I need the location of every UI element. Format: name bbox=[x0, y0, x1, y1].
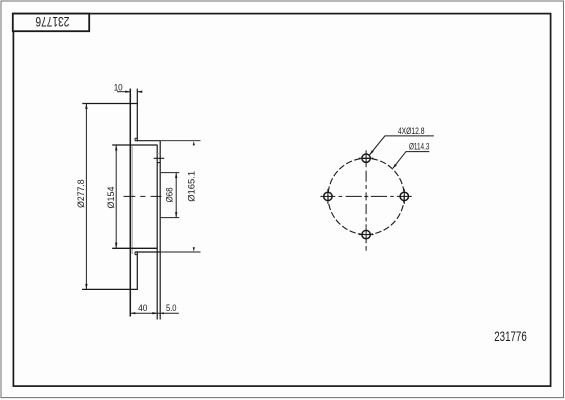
svg-text:Ø165.1: Ø165.1 bbox=[187, 171, 198, 202]
svg-text:Ø154: Ø154 bbox=[106, 187, 117, 209]
svg-text:5.0: 5.0 bbox=[166, 303, 177, 313]
svg-text:Ø277.8: Ø277.8 bbox=[76, 179, 87, 208]
svg-text:4XØ12.8: 4XØ12.8 bbox=[398, 126, 425, 136]
svg-text:231776: 231776 bbox=[35, 14, 69, 29]
svg-text:Ø114.3: Ø114.3 bbox=[409, 141, 430, 151]
svg-text:10: 10 bbox=[114, 82, 123, 92]
svg-text:Ø68: Ø68 bbox=[164, 187, 175, 202]
svg-text:40: 40 bbox=[138, 303, 147, 313]
svg-text:231776: 231776 bbox=[494, 328, 527, 344]
